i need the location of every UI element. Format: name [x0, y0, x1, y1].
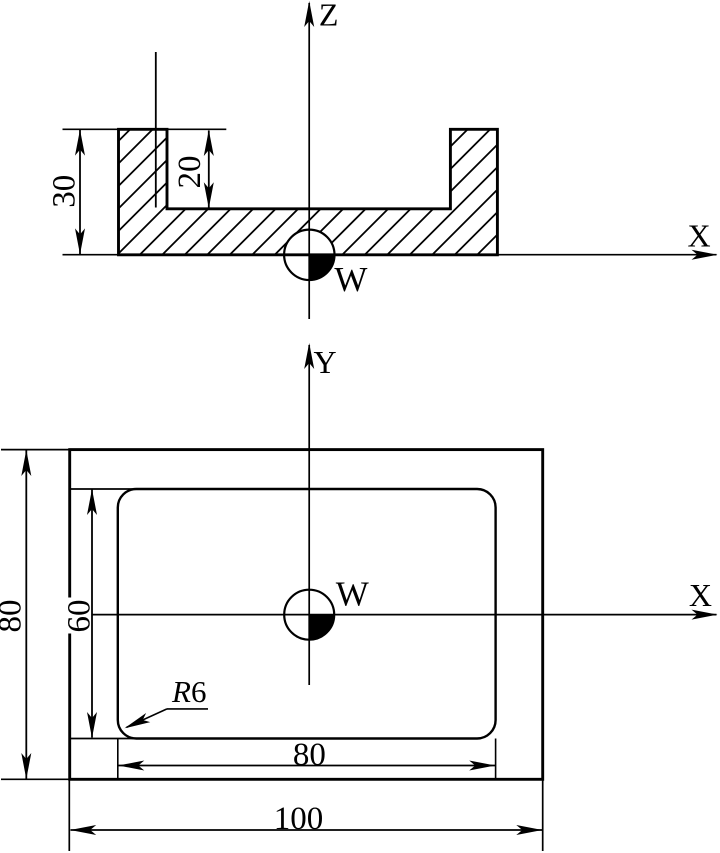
extension line top-left (y=449.6)	[1, 449, 69, 451]
dimension line 100	[71, 829, 543, 831]
Z axis arrowhead	[304, 1, 314, 27]
svg-text:X: X	[689, 577, 712, 613]
svg-text:60: 60	[61, 600, 97, 633]
svg-text:Y: Y	[313, 344, 336, 380]
extension line bottom-left (y=779.3)	[1, 778, 69, 780]
svg-text:100: 100	[274, 801, 324, 837]
leader R6 shoulder	[167, 708, 208, 710]
origin symbol W quadrant fill (top view)	[309, 255, 334, 280]
dimension line 30	[79, 130, 81, 254]
extension line below inner rect left (for dim 80 bottom)	[117, 739, 119, 780]
leader R6 arrowhead	[122, 713, 150, 733]
extension line right of left wall (for dim 20)	[166, 128, 226, 130]
dimension text 60 (with knockout)	[66, 598, 91, 634]
outer rectangle	[70, 450, 543, 780]
section outline (U channel)	[119, 129, 498, 255]
svg-text:80: 80	[0, 600, 28, 633]
origin symbol W (bottom view) circle	[284, 590, 334, 640]
X axis line (top view)	[63, 254, 717, 256]
dimension line 20	[208, 131, 210, 208]
dimension line 80 (left)	[25, 451, 27, 779]
svg-text:R6: R6	[171, 674, 206, 709]
svg-text:W: W	[336, 574, 369, 613]
Y axis line	[308, 345, 310, 685]
origin symbol W (top view) circle	[284, 230, 334, 280]
extension line left of wall (top, y=129)	[63, 128, 120, 130]
svg-text:X: X	[687, 218, 710, 254]
leader R6 diagonal	[127, 709, 168, 727]
svg-text:Z: Z	[319, 0, 339, 33]
extension line for dim 60 (top, to rounded corner)	[71, 488, 139, 490]
extension line below inner rect right (for dim 80 bottom)	[495, 739, 497, 780]
svg-text:20: 20	[172, 156, 208, 189]
origin symbol W quadrant fill (bottom view)	[309, 615, 334, 640]
dimension line 80 (bottom)	[119, 765, 496, 767]
svg-text:30: 30	[47, 175, 83, 208]
extension line below outer rect left (for dim 100)	[68, 780, 70, 851]
Z axis line	[308, 3, 310, 319]
dimension line 60	[91, 490, 93, 738]
svg-text:W: W	[334, 260, 367, 299]
Y axis arrowhead	[304, 343, 314, 369]
inner rounded rectangle	[118, 489, 496, 739]
extension line for dim 60 (bottom, to rounded corner)	[71, 738, 139, 740]
hatch (section fill)	[5, 129, 604, 255]
X axis line (bottom view)	[92, 614, 717, 616]
vertical line above left wall	[155, 52, 157, 208]
X axis arrowhead (top view)	[692, 250, 718, 260]
svg-text:80: 80	[293, 737, 326, 773]
extension line below outer rect right (for dim 100)	[542, 780, 544, 851]
X axis arrowhead (bottom view)	[692, 610, 718, 620]
